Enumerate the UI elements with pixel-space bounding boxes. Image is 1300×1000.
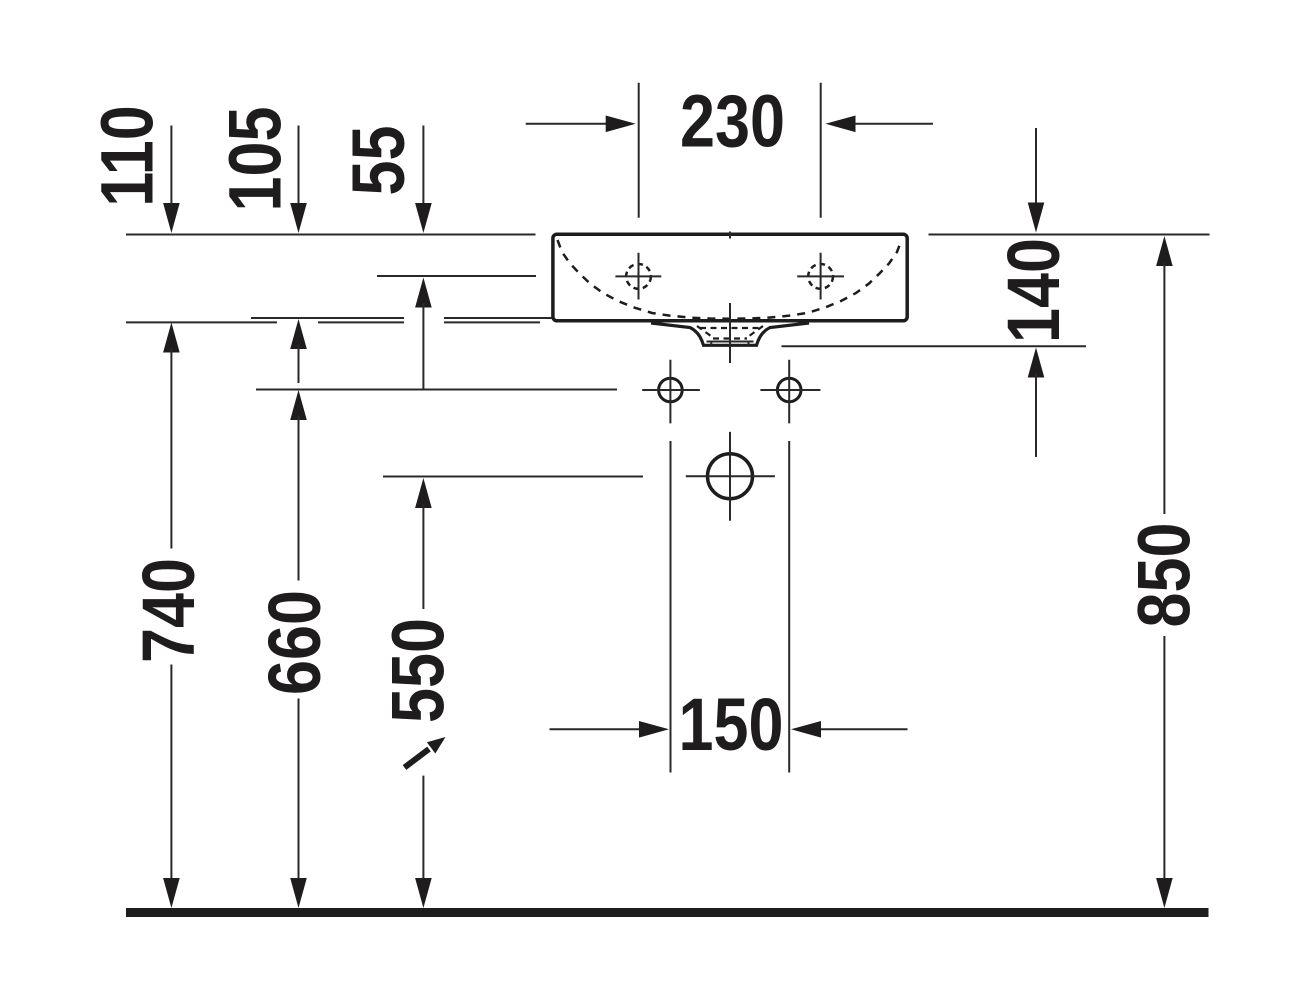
- wall reference line left: [126, 234, 536, 236]
- drain centre line upper: [729, 303, 731, 363]
- floor line: [126, 908, 1209, 917]
- mounting hole left circle: [659, 378, 683, 402]
- dimension 55 bottom arrow: [415, 278, 432, 390]
- node 105-ref line: [251, 317, 552, 319]
- dimension 55 top arrow: [415, 126, 432, 234]
- dimension 140 bottom arrow: [1028, 348, 1045, 458]
- drain hole cross: [686, 432, 775, 521]
- dimension 660 line with arrows: [290, 390, 307, 908]
- drain hole circle: [708, 454, 753, 499]
- washbasin inner bowl dashed curve: [558, 240, 902, 319]
- drain trap dashed inner outline: [697, 326, 763, 339]
- svg-text:850: 850: [1123, 523, 1206, 628]
- dimension 550 diagonal break arrow: [405, 737, 446, 768]
- washbasin centre tick: [729, 232, 731, 239]
- node 110-ref line: [126, 321, 540, 323]
- dimension 740 line with arrows: [163, 323, 180, 909]
- faucet hole left cross: [615, 253, 661, 300]
- faucet hole left dashed circle: [626, 264, 651, 289]
- mounting hole right circle: [777, 378, 801, 402]
- node 660-ref line: [256, 389, 617, 391]
- faucet hole right dashed circle: [808, 264, 833, 289]
- dimension 150 extension line right: [788, 441, 790, 773]
- dimension 230 left arrow: [526, 116, 636, 133]
- svg-text:140: 140: [992, 238, 1075, 343]
- svg-text:550: 550: [377, 618, 460, 723]
- svg-text:740: 740: [127, 558, 210, 663]
- drain trap outline: [651, 323, 809, 345]
- dimension 150 left arrow: [550, 721, 670, 738]
- dimension 105 top arrow: [290, 126, 307, 234]
- svg-text:150: 150: [679, 683, 784, 766]
- mounting hole right cross: [760, 360, 820, 424]
- dimension 105 bottom arrow: [290, 319, 307, 383]
- dimension 150 right arrow: [791, 721, 908, 738]
- drain trap inner plate line: [707, 342, 754, 346]
- dimension 230 extension line right: [820, 83, 822, 218]
- dimension 550 line with arrows: [415, 478, 432, 908]
- svg-text:105: 105: [214, 107, 297, 212]
- mounting hole left cross: [642, 360, 700, 424]
- washbasin body outline: [553, 234, 907, 321]
- faucet hole right cross: [797, 253, 844, 300]
- node 140-ref line: [782, 345, 1087, 347]
- svg-text:110: 110: [86, 105, 169, 206]
- dimension 140 top arrow: [1028, 128, 1045, 233]
- dimension 110 top arrow: [163, 126, 180, 234]
- svg-text:230: 230: [680, 80, 785, 163]
- svg-text:660: 660: [253, 590, 336, 695]
- dimension 850 line with arrows: [1156, 236, 1173, 908]
- wall reference line right: [929, 234, 1210, 236]
- node 55-ref line: [377, 275, 536, 277]
- node 550-ref line: [383, 476, 643, 478]
- dimension 230 extension line left: [638, 83, 640, 218]
- svg-text:55: 55: [337, 126, 420, 196]
- dimension 150 extension line left: [670, 441, 672, 773]
- dimension 230 right arrow: [826, 116, 934, 133]
